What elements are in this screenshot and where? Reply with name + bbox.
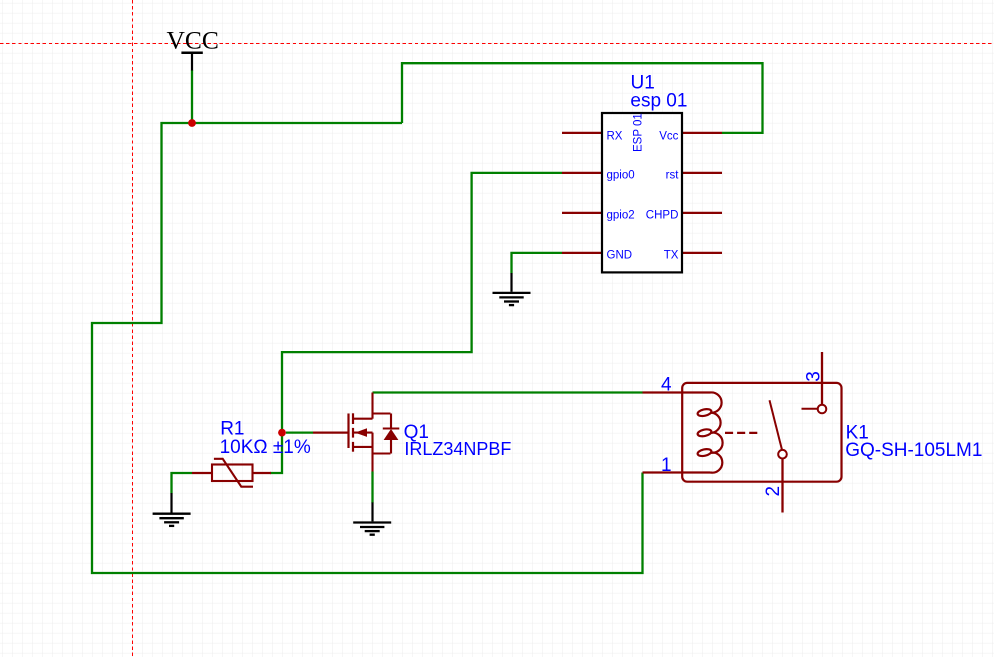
svg-text:GQ-SH-105LM1: GQ-SH-105LM1	[845, 440, 982, 461]
svg-text:ESP 01: ESP 01	[633, 113, 645, 152]
svg-text:3: 3	[804, 371, 825, 382]
svg-text:GND: GND	[607, 250, 633, 262]
svg-text:2: 2	[763, 486, 784, 497]
svg-text:rst: rst	[666, 170, 680, 182]
svg-text:1: 1	[661, 455, 672, 476]
svg-text:RX: RX	[607, 130, 623, 142]
svg-text:esp 01: esp 01	[630, 91, 687, 112]
svg-text:4: 4	[661, 375, 672, 396]
svg-text:CHPD: CHPD	[646, 210, 679, 222]
svg-text:IRLZ34NPBF: IRLZ34NPBF	[404, 439, 511, 459]
svg-text:gpio0: gpio0	[607, 170, 635, 182]
svg-text:gpio2: gpio2	[607, 210, 635, 222]
svg-text:10KΩ ±1%: 10KΩ ±1%	[220, 437, 311, 458]
svg-text:VCC: VCC	[166, 26, 218, 55]
svg-text:Vcc: Vcc	[659, 130, 678, 142]
svg-text:TX: TX	[664, 250, 679, 262]
